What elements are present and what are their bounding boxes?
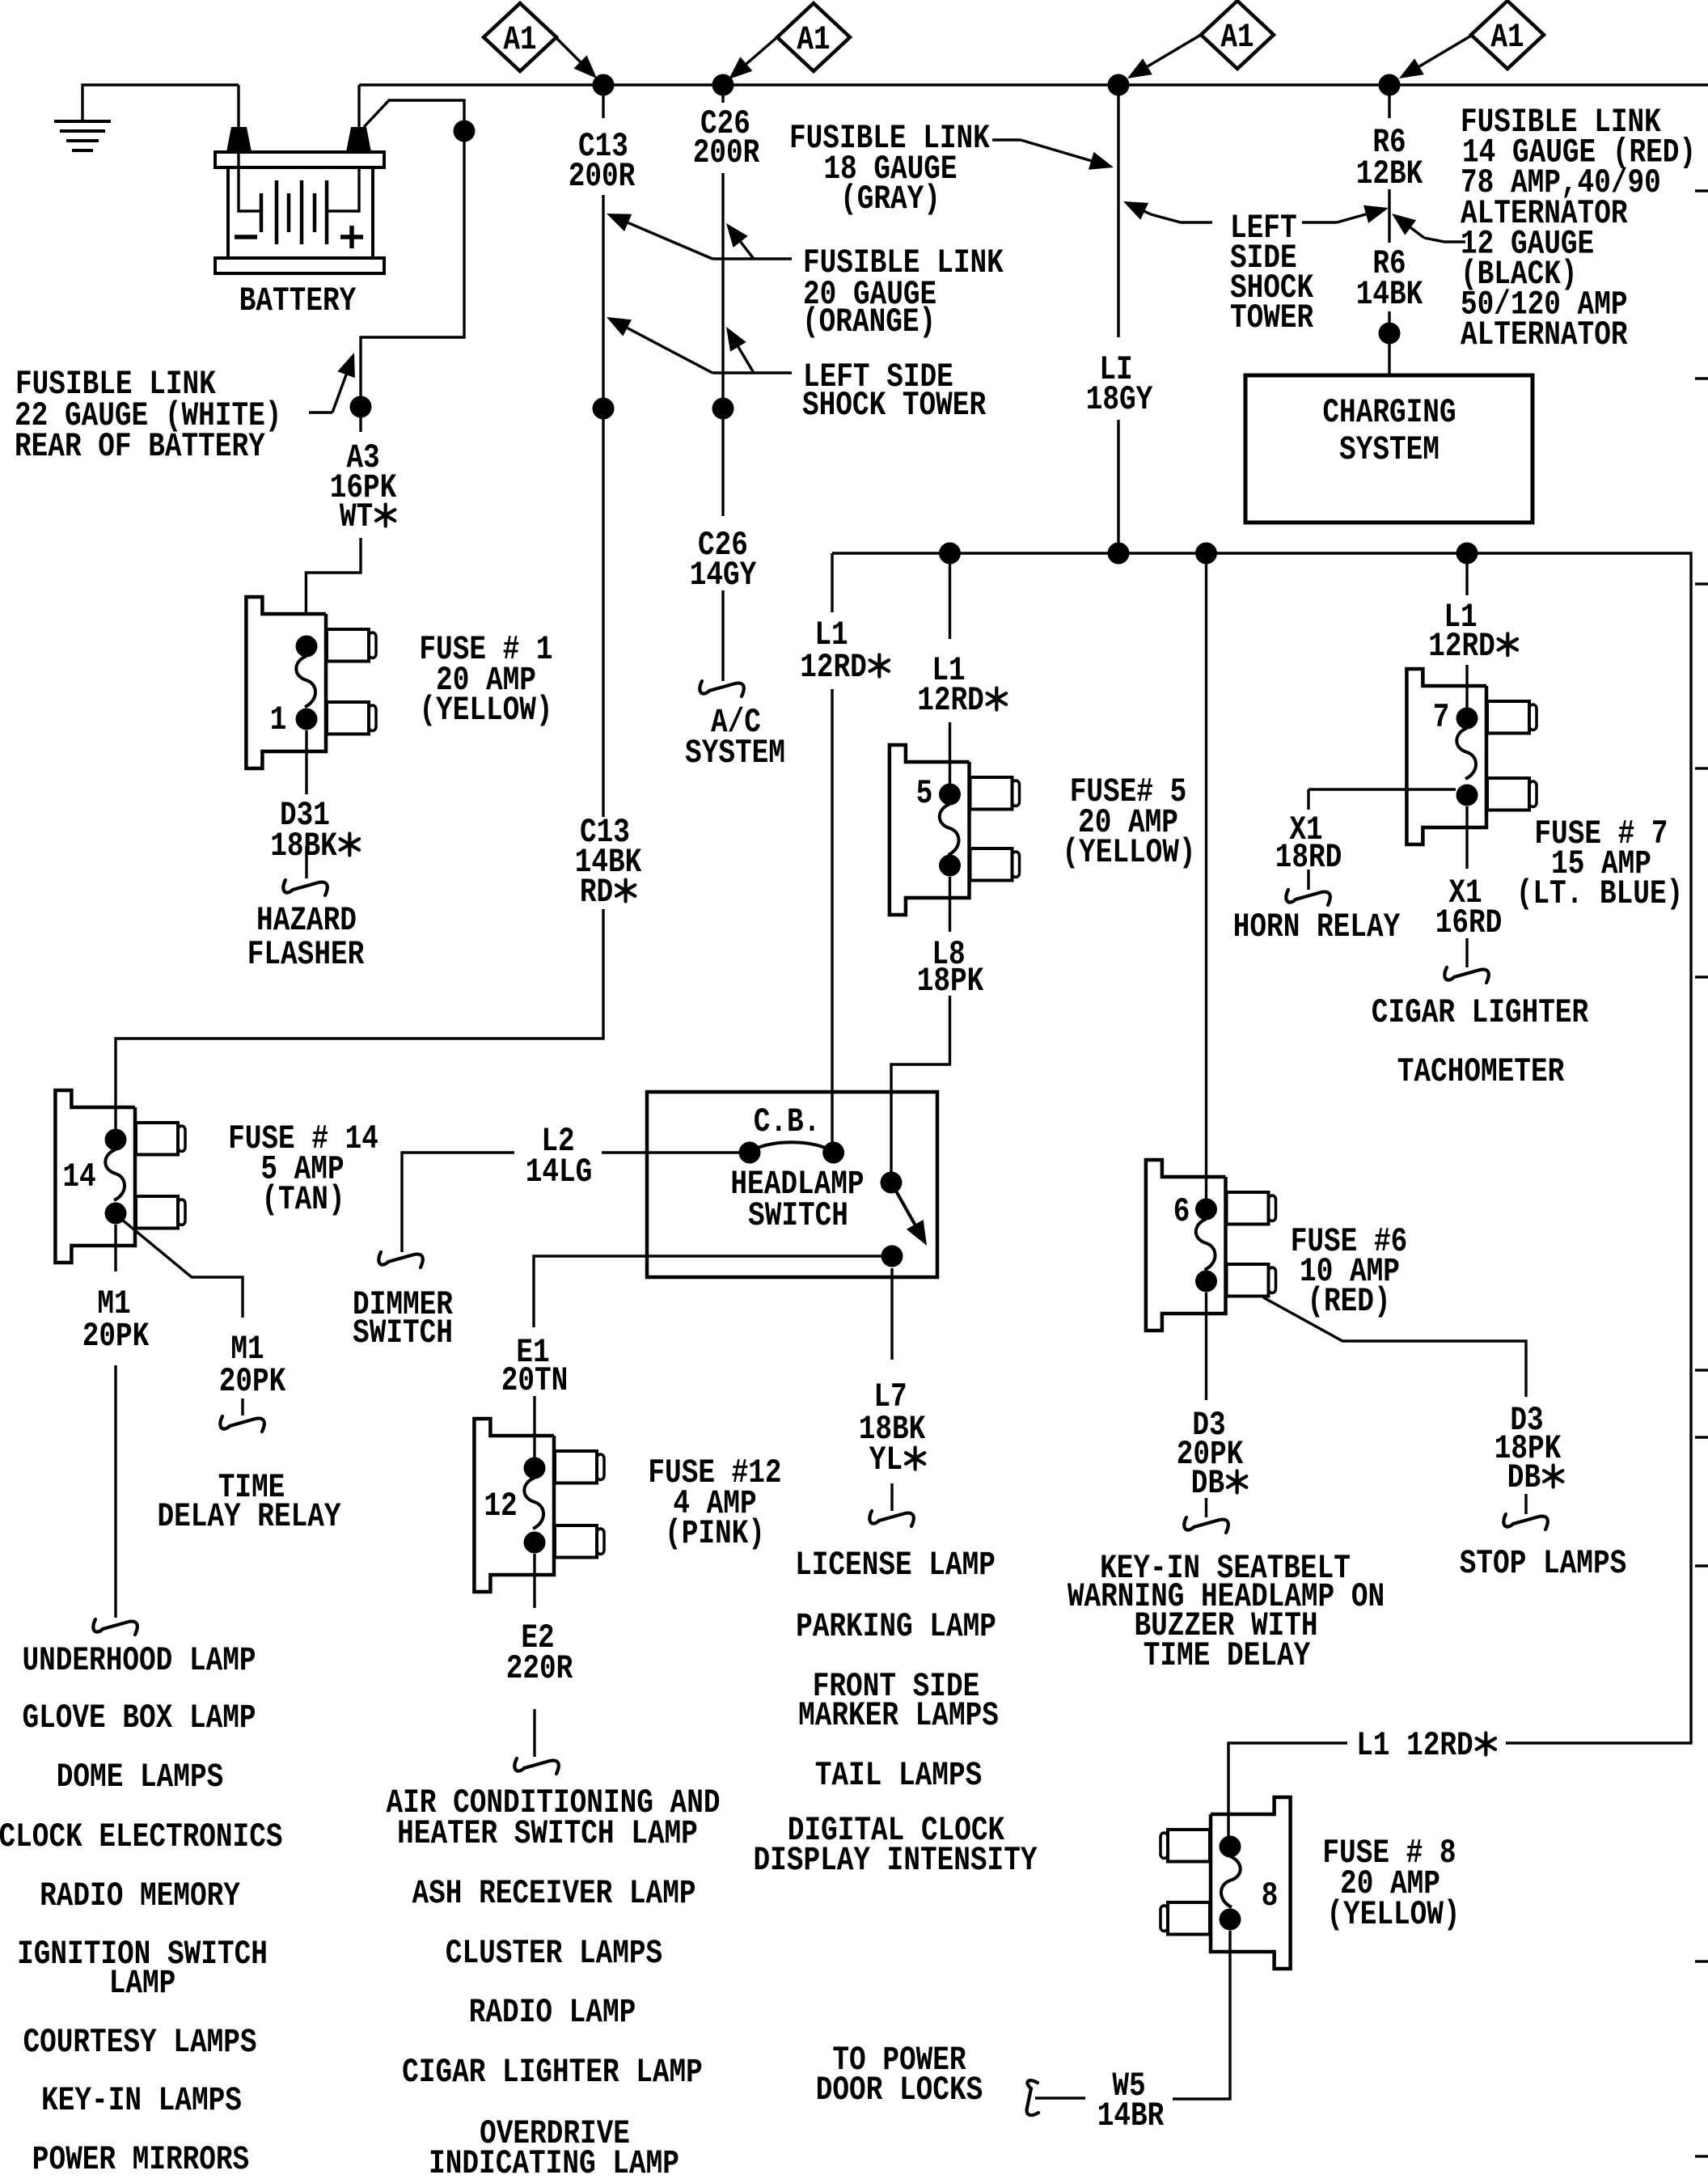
circuit breaker arc bbox=[750, 1142, 834, 1153]
connector to underhood lamp bbox=[93, 1619, 137, 1635]
wire into fuse 12 bbox=[533, 1396, 535, 1468]
svg-text:200R: 200R bbox=[569, 157, 636, 196]
wire to fuse 6 bbox=[1205, 553, 1207, 1209]
svg-text:20TN: 20TN bbox=[501, 1361, 569, 1400]
svg-text:(TAN): (TAN) bbox=[261, 1180, 345, 1219]
leader 12 gauge black to R6 wire bbox=[1424, 238, 1465, 242]
leader arrow gray link to L1 wire bbox=[992, 138, 1021, 141]
fuse F7 bbox=[1406, 669, 1486, 844]
wire to fuse 5 bbox=[949, 553, 951, 639]
svg-text:UNDERHOOD LAMP: UNDERHOOD LAMP bbox=[22, 1641, 256, 1680]
R6 wire middle bbox=[1388, 189, 1390, 243]
arrow from A1-3 to L1 node bbox=[1148, 35, 1201, 66]
svg-text:FLASHER: FLASHER bbox=[247, 935, 365, 974]
connector to power door locks bbox=[1027, 2080, 1038, 2115]
node fuse7 branch bbox=[1456, 543, 1478, 565]
svg-text:YL: YL bbox=[869, 1441, 903, 1479]
svg-text:16RD: 16RD bbox=[1435, 903, 1503, 942]
wire below fuse F8 to W5 bbox=[1173, 1931, 1230, 2099]
node fuse5 branch bbox=[939, 543, 961, 565]
svg-text:8: 8 bbox=[1262, 1876, 1279, 1915]
svg-text:12: 12 bbox=[484, 1487, 517, 1525]
ground bbox=[54, 120, 111, 123]
svg-text:(YELLOW): (YELLOW) bbox=[1062, 833, 1195, 872]
X1 branch to horn relay bbox=[1308, 788, 1456, 790]
svg-text:(PINK): (PINK) bbox=[665, 1514, 765, 1553]
svg-text:MARKER LAMPS: MARKER LAMPS bbox=[798, 1696, 999, 1735]
top bus wire left segment bbox=[82, 85, 239, 121]
svg-text:12RD: 12RD bbox=[1428, 627, 1495, 666]
headlamp switch box bbox=[647, 1092, 937, 1277]
svg-text:A1: A1 bbox=[1490, 18, 1524, 57]
wire below fuse F7 bbox=[1465, 806, 1468, 869]
svg-text:DB: DB bbox=[1507, 1458, 1541, 1497]
stub to license lamps bbox=[890, 1483, 893, 1511]
svg-text:DOOR LOCKS: DOOR LOCKS bbox=[816, 2071, 983, 2109]
svg-text:ALTERNATOR: ALTERNATOR bbox=[1461, 315, 1628, 354]
svg-text:(YELLOW): (YELLOW) bbox=[419, 691, 552, 730]
svg-text:BATTERY: BATTERY bbox=[239, 281, 357, 320]
svg-text:L1 12RD: L1 12RD bbox=[1356, 1726, 1473, 1765]
A1 diamond 3 bbox=[1201, 1, 1274, 69]
svg-text:(LT. BLUE): (LT. BLUE) bbox=[1516, 874, 1684, 913]
node fuse6 branch bbox=[1195, 543, 1217, 565]
svg-text:SHOCK TOWER: SHOCK TOWER bbox=[802, 386, 987, 425]
node on battery feed wire bbox=[454, 121, 476, 142]
battery plus sign bbox=[340, 235, 363, 239]
arrow to C13 wire bbox=[628, 222, 712, 259]
svg-text:RADIO MEMORY: RADIO MEMORY bbox=[40, 1876, 240, 1915]
svg-text:SYSTEM: SYSTEM bbox=[685, 734, 785, 772]
svg-text:TIME DELAY: TIME DELAY bbox=[1144, 1636, 1311, 1675]
connector to stop lamps bbox=[1503, 1514, 1548, 1530]
node on C13 wire bbox=[593, 398, 615, 420]
svg-text:18BK: 18BK bbox=[270, 827, 337, 865]
svg-text:HORN RELAY: HORN RELAY bbox=[1233, 908, 1401, 946]
circuit breaker dots bbox=[739, 1142, 761, 1164]
wire label to fuse8 bbox=[1228, 1743, 1347, 1847]
svg-text:GLOVE BOX LAMP: GLOVE BOX LAMP bbox=[22, 1699, 256, 1737]
switch lower contact dot bbox=[881, 1246, 903, 1267]
svg-text:WT: WT bbox=[340, 497, 373, 536]
M1 wire down bbox=[114, 1365, 116, 1618]
svg-text:(YELLOW): (YELLOW) bbox=[1326, 1895, 1460, 1934]
arrow to C13 wire lower bbox=[628, 328, 712, 374]
svg-text:INDICATING LAMP: INDICATING LAMP bbox=[429, 2144, 679, 2179]
C13 wire middle bbox=[602, 195, 604, 408]
A1 diamond 1 bbox=[484, 3, 556, 71]
connector to key-in buzzer bbox=[1184, 1517, 1228, 1533]
L1 12RD wire to headlamp switch bbox=[831, 553, 833, 612]
connector to dimmer switch bbox=[378, 1252, 423, 1267]
connector to hazard flasher bbox=[283, 880, 328, 895]
orange link leader dash bbox=[712, 257, 792, 260]
stub to cigar lighter bbox=[1465, 938, 1468, 967]
svg-text:COURTESY LAMPS: COURTESY LAMPS bbox=[23, 2023, 256, 2062]
L1 main vertical wire lower bbox=[1117, 420, 1119, 553]
E2 wire stub bbox=[533, 1709, 535, 1757]
svg-text:TOWER: TOWER bbox=[1230, 298, 1314, 337]
svg-text:STOP LAMPS: STOP LAMPS bbox=[1460, 1544, 1627, 1583]
L8 wire to headlamp switch bbox=[891, 996, 950, 1183]
connector to time delay relay bbox=[220, 1416, 264, 1432]
svg-text:12BK: 12BK bbox=[1356, 154, 1423, 193]
node L1 joins bus bbox=[1108, 543, 1130, 565]
svg-text:KEY-IN LAMPS: KEY-IN LAMPS bbox=[41, 2081, 242, 2120]
svg-text:PARKING LAMP: PARKING LAMP bbox=[796, 1607, 996, 1646]
node A3 junction bbox=[350, 396, 372, 418]
svg-text:SYSTEM: SYSTEM bbox=[1339, 430, 1440, 469]
svg-text:DB: DB bbox=[1191, 1464, 1224, 1503]
svg-text:18GY: 18GY bbox=[1086, 380, 1153, 419]
arrow from A1-2 to C26 node bbox=[746, 37, 777, 64]
L7 wire below headlamp switch bbox=[890, 1268, 893, 1360]
L1 main vertical wire upper bbox=[1117, 85, 1119, 337]
svg-text:TAIL LAMPS: TAIL LAMPS bbox=[815, 1756, 983, 1795]
svg-text:1: 1 bbox=[270, 700, 287, 739]
svg-text:TACHOMETER: TACHOMETER bbox=[1397, 1052, 1565, 1091]
arrow from A1-4 to R6 node bbox=[1419, 35, 1473, 66]
svg-text:14LG: 14LG bbox=[526, 1153, 593, 1191]
battery minus sign bbox=[235, 235, 257, 239]
wire from L2 into box bbox=[602, 1151, 750, 1153]
node on R6 wire bbox=[1379, 323, 1401, 345]
fuse F14 bbox=[55, 1090, 135, 1263]
fuse F6 bbox=[1146, 1160, 1226, 1331]
svg-text:POWER MIRRORS: POWER MIRRORS bbox=[32, 2140, 249, 2179]
svg-text:DELAY RELAY: DELAY RELAY bbox=[157, 1497, 341, 1536]
node R6 on bus bbox=[1379, 74, 1401, 96]
svg-text:(GRAY): (GRAY) bbox=[840, 180, 941, 218]
svg-text:A1: A1 bbox=[1220, 18, 1254, 57]
svg-text:14: 14 bbox=[62, 1157, 95, 1196]
arrow to C26 wire lower bbox=[738, 347, 754, 373]
C26 wire stub to A/C bbox=[721, 590, 724, 681]
svg-text:14GY: 14GY bbox=[690, 556, 757, 594]
svg-text:SWITCH: SWITCH bbox=[353, 1314, 453, 1352]
R6 wire upper bbox=[1388, 85, 1390, 118]
svg-text:6: 6 bbox=[1173, 1192, 1190, 1231]
switch pivot dot bbox=[881, 1172, 903, 1194]
connector to horn relay bbox=[1286, 890, 1330, 905]
fuse F8 (mirrored) bbox=[1211, 1797, 1291, 1969]
svg-text:LAMP: LAMP bbox=[109, 1964, 176, 2003]
svg-text:(RED): (RED) bbox=[1307, 1282, 1390, 1321]
svg-text:14BK: 14BK bbox=[1356, 275, 1423, 314]
wire below fuse F14 bbox=[114, 1225, 116, 1271]
top bus wire right segment bbox=[359, 83, 1708, 86]
svg-text:CIGAR LIGHTER LAMP: CIGAR LIGHTER LAMP bbox=[402, 2053, 703, 2092]
svg-text:CLOCK ELECTRONICS: CLOCK ELECTRONICS bbox=[0, 1817, 283, 1856]
svg-text:CIGAR LIGHTER: CIGAR LIGHTER bbox=[1372, 993, 1589, 1032]
wire from battery plus to A3 branch bbox=[361, 100, 464, 432]
wire below fuse F5 bbox=[949, 877, 951, 932]
wire below fuse F1 bbox=[305, 730, 307, 794]
A1 diamond 2 bbox=[777, 3, 850, 71]
svg-text:7: 7 bbox=[1433, 698, 1450, 737]
svg-text:SWITCH: SWITCH bbox=[748, 1196, 848, 1235]
second bus wire bbox=[832, 553, 1691, 1743]
connector to license lamps bbox=[869, 1511, 914, 1526]
svg-text:RD: RD bbox=[580, 873, 613, 912]
node on C26 wire bbox=[712, 398, 734, 420]
battery BT1 bbox=[226, 127, 252, 152]
svg-text:A1: A1 bbox=[503, 20, 536, 59]
connector to cigar lighter bbox=[1444, 967, 1489, 983]
fuse6 to stop lamps wire bbox=[1263, 1297, 1526, 1397]
svg-text:RADIO LAMP: RADIO LAMP bbox=[469, 1993, 636, 2032]
fuse F1 bbox=[246, 597, 326, 768]
svg-text:LICENSE LAMP: LICENSE LAMP bbox=[795, 1546, 996, 1585]
stub to time delay relay bbox=[241, 1398, 243, 1415]
arrow from A1-1 to C13 node bbox=[556, 37, 581, 62]
svg-text:HAZARD: HAZARD bbox=[256, 901, 357, 940]
stub to stop lamps bbox=[1524, 1494, 1527, 1514]
svg-text:20PK: 20PK bbox=[219, 1362, 286, 1401]
svg-text:CLUSTER LAMPS: CLUSTER LAMPS bbox=[446, 1934, 662, 1973]
svg-text:CHARGING: CHARGING bbox=[1322, 393, 1456, 432]
leader from LEFT to L1 wire bbox=[1151, 214, 1212, 222]
svg-text:20PK: 20PK bbox=[82, 1317, 150, 1356]
svg-text:12RD: 12RD bbox=[917, 681, 984, 720]
wire from switch contact to E1 bbox=[534, 1256, 892, 1327]
svg-text:5: 5 bbox=[916, 774, 933, 813]
charging system box bbox=[1245, 375, 1533, 523]
page edge ticks bbox=[1695, 189, 1708, 192]
svg-text:ASH RECEIVER LAMP: ASH RECEIVER LAMP bbox=[412, 1874, 696, 1913]
L2 wire from fuse14 area bbox=[402, 1153, 514, 1252]
leader arrow to A3 wire corner bbox=[309, 411, 332, 413]
svg-text:HEATER SWITCH LAMP: HEATER SWITCH LAMP bbox=[397, 1814, 698, 1853]
node L1 on bus bbox=[1108, 74, 1130, 96]
wire below fuse F6 bbox=[1205, 1293, 1207, 1400]
svg-text:18PK: 18PK bbox=[917, 962, 984, 1001]
A1 diamond 4 bbox=[1471, 1, 1544, 69]
wire below fuse F12 bbox=[533, 1554, 535, 1608]
arrow to C26 wire bbox=[741, 242, 754, 259]
svg-text:14BR: 14BR bbox=[1097, 2096, 1165, 2135]
svg-text:REAR OF BATTERY: REAR OF BATTERY bbox=[15, 427, 265, 466]
fuse F12 bbox=[474, 1419, 554, 1592]
wire to fuse 7 bbox=[1465, 553, 1468, 595]
connector to lamp loads bbox=[514, 1758, 559, 1774]
connector to A/C system bbox=[700, 681, 744, 696]
node C26 on bus bbox=[712, 74, 734, 96]
C13 wire to lower corner bbox=[602, 408, 604, 817]
leader from LEFT to R6 wire bbox=[1302, 221, 1337, 223]
svg-text:DISPLAY INTENSITY: DISPLAY INTENSITY bbox=[754, 1841, 1038, 1880]
svg-text:DOME LAMPS: DOME LAMPS bbox=[57, 1758, 224, 1796]
wire A3 to fuse 14 input bbox=[306, 538, 361, 613]
battery internal wires bbox=[239, 85, 261, 211]
svg-text:(ORANGE): (ORANGE) bbox=[802, 303, 936, 341]
C26 wire lower bbox=[721, 408, 724, 516]
wire stub to hazard flasher bbox=[305, 846, 307, 878]
C26 stub below bus bbox=[721, 85, 724, 103]
node C13 on bus bbox=[593, 74, 615, 96]
R6 wire to charging box bbox=[1388, 311, 1390, 375]
svg-text:12RD: 12RD bbox=[800, 648, 867, 687]
switch arm bbox=[891, 1183, 915, 1225]
svg-text:A1: A1 bbox=[797, 20, 830, 59]
fuse14 to time delay relay wire bbox=[122, 1220, 243, 1318]
stub to horn relay bbox=[1307, 869, 1309, 890]
W5 connector dash bbox=[1035, 2096, 1085, 2099]
svg-text:C.B.: C.B. bbox=[754, 1102, 821, 1141]
C26 wire upper bbox=[721, 173, 724, 408]
C13 wire upper bbox=[602, 85, 604, 118]
svg-text:200R: 200R bbox=[693, 133, 760, 172]
svg-text:220R: 220R bbox=[506, 1649, 573, 1688]
stub to key-in buzzer bbox=[1205, 1498, 1207, 1517]
C13 wire lower to fuse 14 bbox=[116, 909, 603, 1140]
shock tower leader dash bbox=[712, 371, 792, 374]
fuse F5 bbox=[890, 745, 970, 915]
